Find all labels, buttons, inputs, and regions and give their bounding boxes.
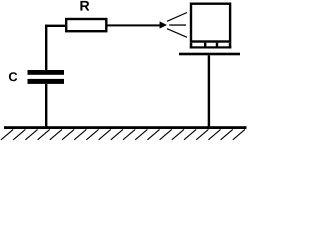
spark line lower bbox=[167, 29, 187, 38]
wire node to capacitor (vertical) bbox=[45, 25, 47, 70]
wire capacitor to ground bbox=[45, 84, 47, 127]
socket pin left wall bbox=[190, 43, 193, 49]
wire resistor to discharge arrow bbox=[106, 24, 160, 26]
wire device to ground bbox=[208, 55, 210, 126]
label C bbox=[9, 72, 17, 81]
spark line upper bbox=[167, 13, 187, 22]
socket pin 2 bbox=[204, 43, 206, 49]
capacitor C top plate bbox=[28, 70, 65, 75]
device under test box bbox=[190, 3, 232, 43]
spark line middle bbox=[169, 24, 186, 25]
capacitor C bottom plate bbox=[28, 79, 65, 84]
socket pin right wall bbox=[229, 43, 232, 49]
socket baseline bbox=[190, 46, 232, 48]
ground plane line bbox=[4, 126, 247, 129]
socket pin 3 bbox=[216, 43, 218, 49]
table bar bbox=[179, 53, 240, 56]
label R bbox=[80, 1, 89, 11]
wire node to resistor (horizontal) bbox=[45, 25, 67, 27]
resistor R bbox=[65, 18, 108, 33]
discharge arrow head bbox=[160, 21, 167, 28]
ground hatching bbox=[1, 129, 245, 139]
